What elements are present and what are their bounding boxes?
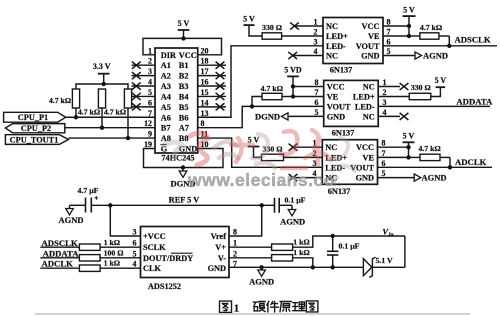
svg-text:7: 7 (315, 88, 319, 97)
svg-text:14: 14 (201, 98, 209, 107)
wire: U1 G-enable pin19 and GND pin10 to DGND rail (144, 148, 224, 167)
port CPU_P2 (5, 124, 64, 133)
svg-text:8: 8 (387, 18, 391, 27)
junction: 5V at U4 pin 8 (406, 145, 410, 149)
wire: U5 pin 7 GND / AGND bottom line to Vin return (229, 236, 405, 267)
wire: ADDATA into R11 (40, 257, 79, 259)
caption: 硬件原理图 (hardware schematic) (253, 301, 318, 312)
wire: U5 pin 1 V+ into R13 (229, 246, 272, 248)
svg-text:NC: NC (326, 52, 338, 61)
svg-text:4: 4 (133, 260, 137, 269)
ground AGND at C1 (58, 205, 83, 225)
wire: U4 pin 8 VCC to 5V (378, 146, 409, 148)
svg-text:5 V: 5 V (403, 5, 415, 14)
power 5V (U3 LED side) (436, 86, 446, 88)
svg-text:SCLK: SCLK (143, 243, 166, 252)
U2 pin numbers right (8,7,6,5) (387, 18, 391, 57)
junction: 5VD at U3 pin 8 (291, 84, 295, 88)
svg-text:+: + (94, 194, 99, 203)
wire: R10 to U5 pin 6 SCLK (100, 246, 140, 248)
svg-text:2: 2 (383, 88, 387, 97)
svg-text:B1: B1 (179, 61, 189, 70)
svg-text:LED+: LED+ (326, 32, 348, 41)
wire: ADSCLK into R10 (40, 246, 79, 248)
svg-text:DGND: DGND (255, 112, 280, 122)
svg-text:1: 1 (233, 239, 237, 248)
svg-text:NC: NC (363, 112, 375, 121)
svg-text:18: 18 (201, 57, 209, 66)
svg-text:330 Ω: 330 Ω (262, 23, 282, 32)
junction: 3.3V rail at middle resistor (102, 82, 106, 86)
svg-text:GND: GND (327, 112, 345, 121)
IC U2 6N137 (ADSCLK optocoupler) body (323, 18, 383, 64)
no-connect U4 pin 4 with X (289, 174, 323, 181)
svg-text:5 V: 5 V (403, 132, 415, 141)
resistor R6 4.7k (U3 VOUT pull-up) (252, 84, 293, 106)
resistor R3 4.7k (pull-up CPU_TOUT1) (104, 89, 132, 138)
power 5VD (U3 output side supply) (284, 66, 302, 97)
svg-text:15: 15 (201, 88, 209, 97)
no-connect U3 pin 4 with X (378, 113, 408, 120)
wire: CPU_P2 to U1 pin 12 (65, 127, 155, 129)
resistor R5 4.7k (ADSCLK pull-up) (409, 23, 449, 46)
svg-text:5 V: 5 V (435, 76, 447, 85)
svg-text:A4: A4 (161, 92, 171, 101)
wire/net ADSCLK: U2 pin 6 VOUT output (383, 35, 497, 46)
resistor R4 330 ohm (U2 LED series) (262, 23, 282, 39)
wire: R12 to U5 pin 4 CLK (100, 267, 140, 269)
svg-text:13: 13 (201, 109, 209, 118)
svg-text:A3: A3 (161, 82, 171, 91)
ground AGND below bottom line (249, 267, 274, 286)
junction: AGND symbol on bottom line (259, 265, 263, 269)
svg-text:6: 6 (148, 98, 152, 107)
svg-text:www.elecians.co: www.elecians.co (187, 170, 335, 190)
svg-text:3: 3 (148, 67, 152, 76)
wire: U3 pin 7 VE to 5VD (293, 96, 324, 98)
wire: U1 pin 11 (B8) to U4 pin 3 LED- (198, 138, 323, 167)
svg-text:4.7 kΩ: 4.7 kΩ (49, 96, 71, 105)
svg-text:1: 1 (148, 46, 152, 55)
wire: U2 pin 8 VCC to 5V (383, 25, 409, 27)
capacitor C2 0.1uF (REF decoupling) (275, 195, 306, 212)
svg-text:1 kΩ: 1 kΩ (293, 238, 309, 247)
svg-text:8: 8 (233, 228, 237, 237)
svg-text:12: 12 (144, 119, 152, 128)
svg-text:100 Ω: 100 Ω (104, 248, 124, 257)
watermark red calligraphy strokes (163, 130, 355, 171)
U2 pin numbers left (1,2,3,4) (314, 18, 318, 57)
svg-text:5.1 V: 5.1 V (376, 256, 394, 265)
svg-text:2: 2 (148, 57, 152, 66)
capacitor C1 4.7uF (REF bypass) (70, 186, 100, 212)
svg-text:B5: B5 (179, 103, 189, 112)
svg-text:V-: V- (218, 254, 226, 263)
svg-text:17: 17 (201, 67, 209, 76)
svg-text:A5: A5 (161, 103, 171, 112)
svg-text:5: 5 (148, 88, 152, 97)
svg-text:CPU_TOUT1: CPU_TOUT1 (10, 136, 59, 145)
svg-text:VCC: VCC (356, 143, 374, 152)
no-connect U3 pin 1 with X (378, 83, 408, 90)
U4 pin numbers right (8,7,6,5) (382, 139, 386, 178)
ground AGND at C2 (280, 205, 305, 226)
svg-text:A1: A1 (161, 61, 171, 70)
svg-text:5: 5 (315, 108, 319, 117)
svg-text:A2: A2 (161, 72, 171, 81)
svg-text:2: 2 (233, 249, 237, 258)
svg-text:1: 1 (383, 78, 387, 87)
svg-text:V+: V+ (215, 243, 226, 252)
resistor R11 100 ohm (DOUT series) (79, 248, 123, 261)
power 5V (74HC245 supply) (178, 19, 190, 38)
wire: R13 up to Vin top rail (293, 236, 405, 247)
svg-text:CPU_P2: CPU_P2 (21, 124, 51, 133)
resistor R7 330 ohm (U3 LED series) (378, 83, 440, 100)
svg-text:AGND: AGND (423, 51, 448, 61)
svg-text:LED-: LED- (326, 42, 346, 51)
wire: R4 to U2 pin 2 LED+ (282, 35, 323, 37)
svg-text:VOUT: VOUT (327, 102, 351, 111)
svg-text:ADDATA: ADDATA (456, 97, 493, 107)
svg-text:B7: B7 (161, 124, 171, 133)
svg-text:GND: GND (208, 264, 226, 273)
resistor R14 1k (V- input) (272, 248, 310, 261)
svg-text:AGND: AGND (280, 217, 305, 227)
net label Vin (382, 227, 393, 239)
IC U1 74HC245 body (155, 48, 198, 153)
junction: R9 to ADCLK line (448, 165, 452, 169)
svg-text:8: 8 (382, 139, 386, 148)
wire/net REF 5 V rail (91, 195, 274, 205)
port CPU_P1 (4, 112, 66, 122)
svg-text:ADSCLK: ADSCLK (42, 238, 78, 248)
no-connect stubs U1 pins 2-6 (A1-A5) with X (132, 62, 156, 111)
junction: REF rail to +VCC drop (108, 203, 112, 207)
svg-text:Vref: Vref (211, 232, 227, 241)
svg-text:3: 3 (383, 98, 387, 107)
svg-text:0.1 μF: 0.1 μF (285, 195, 306, 204)
svg-text:19: 19 (144, 140, 152, 149)
svg-text:6N137: 6N137 (332, 129, 355, 138)
wire: CPU_TOUT1 to U1 pin 9 (68, 137, 155, 139)
wire: U1 pin 13 (B6) to U2 pin 3 LED- (198, 46, 323, 117)
ground DGND at U3 pin 5 (255, 112, 324, 122)
svg-text:CLK: CLK (143, 264, 162, 273)
port CPU_TOUT1 (5, 135, 68, 145)
svg-text:VE: VE (327, 93, 339, 102)
junction: DGND rail (181, 165, 185, 169)
resistor R12 1k (CLK series) (79, 259, 120, 272)
svg-text:5: 5 (387, 47, 391, 56)
svg-text:8: 8 (201, 119, 205, 128)
svg-text:9: 9 (148, 130, 152, 139)
svg-text:B6: B6 (179, 113, 189, 122)
IC U5 ADS1252 body (141, 227, 230, 278)
svg-text:NC: NC (363, 83, 375, 92)
svg-text:4.7 kΩ: 4.7 kΩ (104, 108, 126, 117)
U1 pin numbers left (1,2,3,4,5,6,7,12,9,19) (144, 46, 152, 149)
resistor R9 4.7k (ADCLK pull-up) (409, 144, 451, 167)
svg-text:1 kΩ: 1 kΩ (104, 259, 120, 268)
wire: REF rail down to U5 pin 8 Vref (229, 205, 262, 236)
U4 pin numbers left (1,2,3,4) (313, 139, 317, 178)
svg-text:4.7 kΩ: 4.7 kΩ (261, 84, 283, 93)
svg-text:GND: GND (361, 52, 379, 61)
svg-text:AGND: AGND (58, 215, 83, 225)
svg-text:5 V: 5 V (178, 19, 190, 28)
svg-text:3: 3 (133, 228, 137, 237)
svg-text:1: 1 (234, 303, 240, 315)
junction: V- resistor to AGND line (311, 265, 315, 269)
U3 pin numbers left (8,7,6,5) (315, 78, 319, 117)
power 3.3V (93, 62, 111, 84)
svg-text:6N137: 6N137 (330, 66, 353, 75)
power 5V (U4 LED side) (248, 136, 262, 158)
svg-text:NC: NC (326, 22, 338, 31)
U5 pin numbers left (3,6,5,4) (133, 228, 137, 269)
svg-text:CPU_P1: CPU_P1 (18, 113, 48, 122)
junction: 5V at U4 pin 7 (406, 155, 410, 159)
svg-text:AGND: AGND (422, 173, 447, 183)
svg-text:GND: GND (356, 174, 374, 183)
power 5V (U2 output side) (403, 5, 416, 36)
no-connect U2 pin 4 with X (288, 52, 323, 59)
svg-text:4: 4 (148, 78, 152, 87)
resistor R1 4.7k (pull-up CPU_P1) (49, 89, 80, 117)
wire: U2 pin 7 VE to 5V (383, 35, 409, 37)
wire: R11 to U5 pin 5 DOUT/DRDY (100, 257, 140, 259)
svg-text:4.7 kΩ: 4.7 kΩ (418, 144, 440, 153)
capacitor C3 0.1uF (across analog input) (327, 236, 360, 267)
svg-text:8: 8 (315, 78, 319, 87)
svg-text:3.3 V: 3.3 V (93, 62, 111, 71)
svg-text:+VCC: +VCC (143, 232, 166, 241)
no-connect U4 pin 1 with X (289, 144, 323, 151)
ground AGND at U4 pin 5 (378, 173, 447, 183)
junction: 5V on U1 top rail (181, 36, 185, 40)
svg-text:B4: B4 (179, 92, 189, 101)
wire: U3 pin 6 VOUT to U1 pin 8 (A7) (198, 106, 324, 127)
junction: REF rail to Vref drop (260, 203, 264, 207)
svg-text:VE: VE (362, 153, 374, 162)
svg-text:VCC: VCC (362, 22, 380, 31)
svg-text:rr: rr (325, 170, 340, 190)
wire/net ADDATA: U3 pin 3 LED- (378, 97, 493, 107)
svg-text:ADDATA: ADDATA (43, 248, 80, 258)
svg-text:ADCLK: ADCLK (42, 258, 74, 268)
svg-text:1: 1 (314, 18, 318, 27)
svg-text:20: 20 (201, 46, 209, 55)
svg-text:ADSCLK: ADSCLK (455, 35, 491, 45)
junction: R2 to CPU_P2 line (100, 125, 104, 129)
svg-text:A7: A7 (179, 124, 189, 133)
wire: U4 pin 7 VE to 5V (378, 156, 409, 158)
svg-text:1 kΩ: 1 kΩ (104, 238, 120, 247)
svg-text:5 VD: 5 VD (284, 66, 302, 75)
svg-text:1 kΩ: 1 kΩ (293, 248, 309, 257)
svg-text:REF 5 V: REF 5 V (169, 195, 200, 204)
ground AGND at U2 pin 5 (383, 51, 448, 61)
junction: 5V at U2 pin 7 (407, 34, 411, 38)
wire/net ADCLK: U4 pin 6 VOUT output (378, 157, 493, 167)
svg-text:0.1 μF: 0.1 μF (339, 241, 360, 250)
svg-text:6: 6 (315, 98, 319, 107)
power 5V (U2 LED side) (243, 14, 262, 36)
junction: R6 to U3 VOUT line (250, 104, 254, 108)
junction: 5VD at U3 pin 7 (291, 94, 295, 98)
svg-text:330 Ω: 330 Ω (411, 83, 431, 92)
svg-text:5 V: 5 V (243, 14, 255, 23)
svg-text:VCC: VCC (327, 83, 345, 92)
svg-text:DOUT/DRDY: DOUT/DRDY (143, 254, 193, 263)
zener diode D1 5.1V (363, 256, 393, 278)
svg-text:LED+: LED+ (353, 93, 375, 102)
svg-text:4: 4 (383, 108, 387, 117)
wire: ADCLK into R12 (40, 267, 79, 269)
svg-text:ADS1252: ADS1252 (148, 282, 181, 291)
no-connect stubs U1 pins 18-14 (B1-B5) with X (198, 62, 226, 111)
wire: R8 to U4 pin 2 LED+ (284, 156, 323, 158)
junction: R5 to ADSCLK line (447, 44, 451, 48)
svg-text:VOUT: VOUT (356, 42, 380, 51)
wire: CPU_P1 to U1 pin 7 (66, 116, 155, 118)
svg-text:7: 7 (148, 109, 152, 118)
svg-text:NC: NC (325, 143, 337, 152)
junction: 5V at U2 pin 8 (407, 24, 411, 28)
svg-text:4: 4 (314, 47, 318, 56)
wire: U3 pin 8 VCC to 5VD (293, 86, 324, 88)
svg-text:4.7 kΩ: 4.7 kΩ (420, 23, 442, 32)
svg-text:B2: B2 (179, 72, 189, 81)
no-connect U2 pin 1 with X (290, 22, 323, 29)
wire: 3.3V rail over pull-up resistors (76, 84, 128, 89)
svg-text:DIR: DIR (161, 51, 177, 60)
junction: R3 to CPU_TOUT1 line (126, 136, 130, 140)
svg-text:74HC245: 74HC245 (161, 154, 194, 163)
svg-text:16: 16 (201, 78, 209, 87)
svg-text:ADCLK: ADCLK (455, 157, 487, 167)
wire: R14 down to AGND line (293, 258, 313, 268)
svg-text:7: 7 (382, 149, 386, 158)
U1 pin numbers right (20,18,17,16,15,14,13,8,11,10) (201, 46, 209, 149)
svg-text:A6: A6 (161, 113, 171, 122)
svg-text:LED-: LED- (355, 102, 375, 111)
wire: REF rail down to U5 pin 3 +VCC (110, 205, 140, 236)
svg-text:in: in (389, 232, 394, 238)
svg-text:2: 2 (314, 28, 318, 37)
svg-text:AGND: AGND (249, 277, 274, 287)
scan artifact: bottom edge streak (35, 313, 470, 315)
wire: U5 pin 2 V- into R14 (229, 257, 272, 259)
resistor R2 4.7k (pull-up CPU_P2) (78, 89, 106, 128)
power 5V (U4 output side) (403, 132, 415, 158)
svg-text:VE: VE (368, 32, 380, 41)
caption: figure number 图 1 (220, 301, 240, 314)
junction: C3 bottom on AGND line (331, 265, 335, 269)
IC U3 6N137 (ADDATA optocoupler) body (324, 80, 379, 126)
resistor R13 1k (V+ input) (272, 238, 310, 251)
junction: R1 to CPU_P1 line (74, 115, 78, 119)
U5 pin numbers right (8,1,2,7) (233, 228, 237, 269)
U3 pin numbers right (1,2,3,4) (383, 78, 387, 117)
svg-text:6: 6 (133, 239, 137, 248)
svg-text:VCC: VCC (179, 51, 197, 60)
resistor R10 1k (SCLK series) (79, 238, 120, 250)
svg-text:6: 6 (387, 37, 391, 46)
svg-text:5: 5 (133, 249, 137, 258)
svg-text:5: 5 (382, 169, 386, 178)
resistor R8 330 ohm (U4 LED series) (262, 145, 284, 161)
junction: C3 top on Vin rail (331, 234, 335, 238)
svg-text:4.7 kΩ: 4.7 kΩ (78, 108, 100, 117)
IC U4 6N137 (ADCLK optocoupler) body (322, 140, 377, 185)
svg-text:7: 7 (387, 28, 391, 37)
svg-text:6: 6 (382, 159, 386, 168)
svg-text:3: 3 (314, 37, 318, 46)
wire: 5V rail to pins 1 and 20 of U1 (143, 38, 222, 54)
svg-text:B3: B3 (179, 82, 189, 91)
ground DGND (digital ground below U1) (170, 168, 195, 189)
